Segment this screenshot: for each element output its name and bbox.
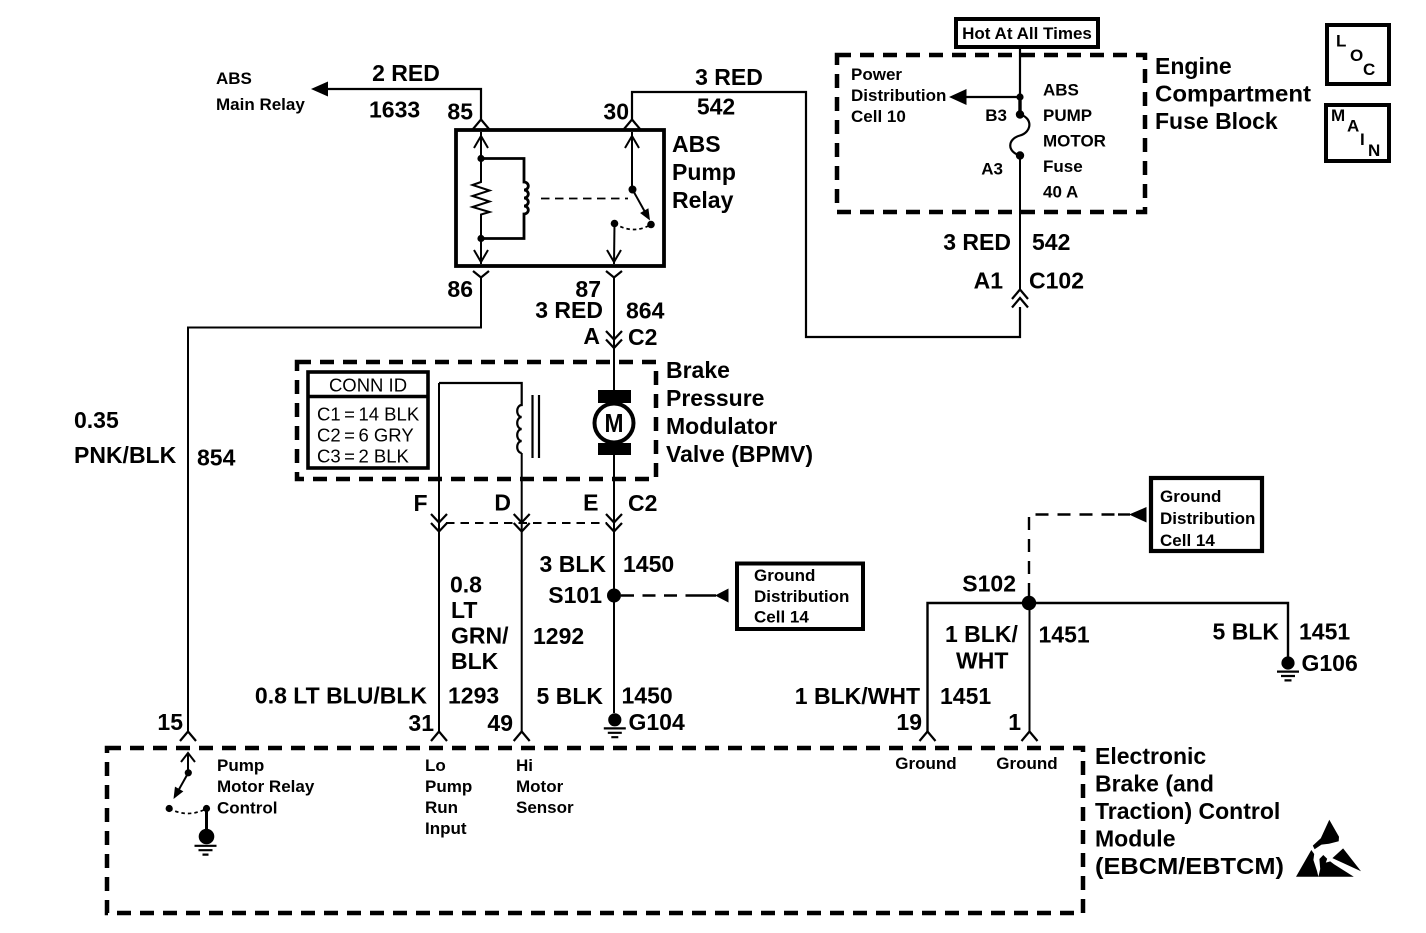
svg-text:Main Relay: Main Relay	[216, 95, 305, 114]
svg-text:C2: C2	[628, 490, 657, 516]
svg-text:Motor: Motor	[516, 777, 564, 796]
svg-text:864: 864	[626, 298, 665, 324]
svg-text:Pump: Pump	[672, 159, 736, 185]
relay pin 87 internal wire with down arrow	[613, 224, 616, 265]
svg-text:542: 542	[697, 94, 735, 120]
MAIN box	[1326, 105, 1389, 161]
svg-text:(EBCM/EBTCM): (EBCM/EBTCM)	[1095, 853, 1284, 879]
svg-text:Fuse Block: Fuse Block	[1155, 108, 1278, 134]
svg-text:Power: Power	[851, 65, 902, 84]
svg-text:Electronic: Electronic	[1095, 743, 1206, 769]
svg-text:ABS: ABS	[672, 131, 721, 157]
svg-text:ABS: ABS	[1043, 81, 1079, 100]
relay K: ABS Pump Relay box	[456, 130, 664, 266]
BPMV internal wire F	[438, 383, 440, 732]
wire 864 (3 RED) pin 87 to BPMV motor	[613, 278, 615, 391]
svg-text:F: F	[413, 490, 427, 516]
svg-text:A: A	[1347, 117, 1359, 136]
svg-text:Motor Relay: Motor Relay	[217, 777, 315, 796]
connector chevron pin 85	[473, 120, 489, 130]
ground bus wire 1451	[928, 603, 1289, 732]
svg-text:Distribution: Distribution	[754, 587, 849, 606]
svg-text:1450: 1450	[622, 683, 673, 709]
dashed reference S102 to Ground Distribution	[1029, 515, 1122, 597]
svg-text:C2=6 GRY: C2=6 GRY	[317, 425, 414, 446]
relay pin 85 internal wire with up arrow	[480, 132, 482, 159]
dashed actuation line coil to switch	[541, 198, 628, 200]
svg-text:2 RED: 2 RED	[372, 60, 440, 86]
svg-text:Distribution: Distribution	[851, 86, 946, 105]
svg-text:I: I	[1360, 130, 1365, 149]
svg-text:E: E	[583, 490, 598, 516]
BPMV internal wire D	[521, 453, 523, 732]
svg-text:5 BLK: 5 BLK	[537, 683, 604, 709]
svg-text:Relay: Relay	[672, 187, 734, 213]
svg-text:B3: B3	[985, 106, 1007, 125]
svg-text:1451: 1451	[1299, 619, 1350, 645]
svg-text:3 RED: 3 RED	[535, 297, 603, 323]
svg-text:C102: C102	[1029, 268, 1084, 294]
relay pin 30 internal wire with up arrow	[631, 132, 633, 190]
fuse terminal dot A3	[1016, 151, 1024, 159]
svg-text:Input: Input	[425, 819, 467, 838]
svg-text:L: L	[1336, 32, 1346, 51]
connector chevrons pin E	[606, 514, 622, 532]
svg-text:0.8 LT BLU/BLK: 0.8 LT BLU/BLK	[255, 683, 427, 709]
svg-text:40 A: 40 A	[1043, 183, 1078, 202]
wire 542 (3 RED) pin 30 to fuse block A1/C102	[632, 92, 1020, 337]
wire to Power Distribution with arrow	[965, 96, 1020, 98]
svg-text:C2: C2	[628, 324, 657, 350]
wire 542 below fuse block	[1019, 156, 1021, 291]
connector chevrons pin D	[514, 514, 530, 532]
svg-text:WHT: WHT	[956, 648, 1008, 674]
EBCM switch pivot dot	[185, 769, 192, 776]
svg-text:Ground: Ground	[754, 566, 815, 585]
Ground Distribution Cell 14 box (right)	[1151, 478, 1262, 551]
svg-text:M: M	[1331, 106, 1345, 125]
svg-text:Valve (BPMV): Valve (BPMV)	[666, 441, 813, 467]
dashed travel arc of EBCM switch	[169, 809, 206, 814]
svg-text:C3=2 BLK: C3=2 BLK	[317, 446, 410, 467]
internal ground symbol	[199, 829, 215, 845]
svg-text:Module: Module	[1095, 826, 1176, 852]
BPMV dashed box: Brake Pressure Modulator Valve	[297, 362, 656, 479]
svg-text:S101: S101	[548, 582, 602, 608]
wire S102 to EBCM pin 1	[1029, 603, 1031, 732]
svg-text:MOTOR: MOTOR	[1043, 132, 1106, 151]
splice S101 junction dot	[607, 589, 621, 603]
svg-text:S102: S102	[962, 571, 1016, 597]
svg-text:15: 15	[157, 709, 183, 735]
svg-text:1: 1	[1008, 709, 1021, 735]
wire to internal ground	[205, 809, 208, 831]
svg-text:542: 542	[1032, 229, 1070, 255]
Ground Distribution Cell 14 box (left)	[737, 564, 863, 630]
svg-text:N: N	[1368, 141, 1380, 160]
wire 1633 (2 RED) from ABS Main Relay to pin 85	[328, 89, 481, 120]
connector chevron pin 30	[624, 120, 640, 130]
EBCM internal switch arrow to pin 15	[187, 753, 189, 773]
svg-text:Cell 10: Cell 10	[851, 107, 906, 126]
svg-text:1293: 1293	[448, 683, 499, 709]
arrow to ABS Main Relay	[311, 82, 328, 97]
svg-text:86: 86	[447, 276, 473, 302]
svg-text:Hi: Hi	[516, 756, 533, 775]
wire 854 (0.35 PNK/BLK) pin 86 to EBCM pin 15	[188, 278, 481, 732]
resistor (relay)	[473, 159, 490, 239]
svg-text:Hot At All Times: Hot At All Times	[962, 24, 1092, 43]
relay switch stationary contact dot (pin 87)	[611, 220, 619, 228]
svg-text:3 BLK: 3 BLK	[540, 551, 607, 577]
svg-text:0.8: 0.8	[450, 572, 482, 598]
svg-text:O: O	[1350, 46, 1363, 65]
svg-text:0.35: 0.35	[74, 407, 119, 433]
svg-text:85: 85	[447, 99, 473, 125]
svg-text:19: 19	[896, 709, 922, 735]
svg-text:Sensor: Sensor	[516, 798, 574, 817]
connector chevron pin 15	[180, 732, 196, 742]
svg-text:Modulator: Modulator	[666, 413, 777, 439]
svg-text:Pressure: Pressure	[666, 385, 764, 411]
wire E from motor	[613, 455, 615, 713]
svg-text:1451: 1451	[940, 683, 991, 709]
ESD sensitive device symbol	[1296, 820, 1361, 877]
motor M of BPMV	[598, 390, 631, 403]
connector C2 dashed boundary line F-D-E	[446, 522, 607, 524]
svg-text:G104: G104	[629, 709, 685, 735]
svg-text:PUMP: PUMP	[1043, 106, 1092, 125]
svg-text:Fuse: Fuse	[1043, 157, 1083, 176]
svg-text:30: 30	[603, 99, 629, 125]
svg-text:854: 854	[197, 445, 236, 471]
junction dot (coil top)	[477, 155, 484, 162]
svg-text:3 RED: 3 RED	[943, 229, 1011, 255]
connector chevron pin 87	[606, 271, 622, 278]
wire from Hot At All Times into fuse block	[1019, 47, 1021, 97]
svg-text:C1=14 BLK: C1=14 BLK	[317, 404, 420, 425]
connector chevron pin 19	[920, 732, 936, 742]
solenoid core lines	[533, 395, 540, 458]
svg-text:PNK/BLK: PNK/BLK	[74, 442, 177, 468]
connector chevron pin 31	[431, 732, 447, 742]
EBCM switch stationary contact dot	[166, 805, 173, 812]
svg-text:G106: G106	[1302, 650, 1358, 676]
inline connector chevrons A1 / C102	[1012, 290, 1028, 308]
splice S102 junction dot	[1022, 596, 1036, 610]
svg-text:1451: 1451	[1039, 622, 1090, 648]
EBCM switch blade with arrowhead	[178, 773, 189, 792]
BPMV pump-motor solenoid coil	[439, 383, 522, 453]
fuse terminal dot B3	[1016, 110, 1024, 118]
svg-text:ABS: ABS	[216, 69, 252, 88]
Hot At All Times banner box	[956, 19, 1098, 47]
ground G104 symbol	[608, 713, 621, 726]
svg-text:Distribution: Distribution	[1160, 509, 1255, 528]
svg-text:D: D	[494, 490, 511, 516]
svg-text:A: A	[583, 323, 600, 349]
svg-text:BLK: BLK	[451, 648, 499, 674]
relay switch thrown-contact dot	[647, 221, 655, 229]
ground G106 symbol	[1281, 656, 1294, 669]
svg-text:Cell 14: Cell 14	[754, 608, 809, 627]
svg-text:Control: Control	[217, 799, 277, 818]
svg-text:Ground: Ground	[1160, 487, 1221, 506]
svg-text:Traction) Control: Traction) Control	[1095, 798, 1280, 824]
relay pin 86 internal wire with down arrow	[480, 239, 482, 265]
svg-text:49: 49	[487, 710, 513, 736]
relay switch pivot dot	[629, 186, 637, 194]
EBCM switch grounded contact dot	[203, 805, 210, 812]
Engine Compartment Fuse Block dashed box	[837, 55, 1145, 212]
svg-text:5 BLK: 5 BLK	[1213, 619, 1280, 645]
connector chevrons pin F	[431, 514, 447, 532]
inline connector chevrons A / C2	[606, 331, 622, 348]
svg-text:1 BLK/WHT: 1 BLK/WHT	[795, 683, 920, 709]
relay switch blade with arrowhead	[633, 190, 646, 213]
svg-text:1292: 1292	[533, 623, 584, 649]
svg-text:3 RED: 3 RED	[695, 64, 763, 90]
junction dot power distribution tap	[1016, 93, 1023, 100]
svg-text:A1: A1	[974, 268, 1004, 294]
svg-text:Run: Run	[425, 798, 458, 817]
svg-text:LT: LT	[451, 597, 477, 623]
connector chevron pin 49	[514, 732, 530, 742]
svg-text:Brake (and: Brake (and	[1095, 771, 1214, 797]
svg-text:1633: 1633	[369, 97, 420, 123]
fuse element: ABS PUMP MOTOR Fuse 40 A	[1010, 115, 1029, 156]
CONN ID table box	[308, 372, 428, 468]
svg-text:Pump: Pump	[425, 777, 472, 796]
svg-text:1450: 1450	[623, 551, 674, 577]
LOC box	[1327, 25, 1389, 84]
connector chevron pin 1	[1022, 732, 1038, 742]
dashed travel arc of switch	[615, 224, 652, 230]
dashed reference S101 to Ground Distribution	[621, 594, 697, 596]
svg-text:Ground: Ground	[895, 754, 956, 773]
svg-text:Compartment: Compartment	[1155, 81, 1311, 107]
connector chevron pin 86	[473, 271, 489, 278]
svg-text:Cell 14: Cell 14	[1160, 531, 1215, 550]
svg-text:C: C	[1363, 60, 1375, 79]
svg-text:Pump: Pump	[217, 756, 264, 775]
relay coil branch	[481, 159, 528, 239]
junction dot (coil bottom)	[477, 235, 484, 242]
svg-text:Lo: Lo	[425, 756, 446, 775]
svg-text:Ground: Ground	[996, 754, 1057, 773]
svg-text:Engine: Engine	[1155, 53, 1232, 79]
svg-text:M: M	[605, 408, 624, 438]
svg-text:Brake: Brake	[666, 357, 730, 383]
svg-text:A3: A3	[981, 160, 1003, 179]
svg-text:CONN ID: CONN ID	[329, 375, 407, 396]
svg-text:1 BLK/: 1 BLK/	[945, 621, 1018, 647]
EBCM dashed box: Electronic Brake (and Traction) Control Module	[107, 748, 1083, 913]
svg-text:31: 31	[408, 710, 434, 736]
svg-text:GRN/: GRN/	[451, 623, 509, 649]
